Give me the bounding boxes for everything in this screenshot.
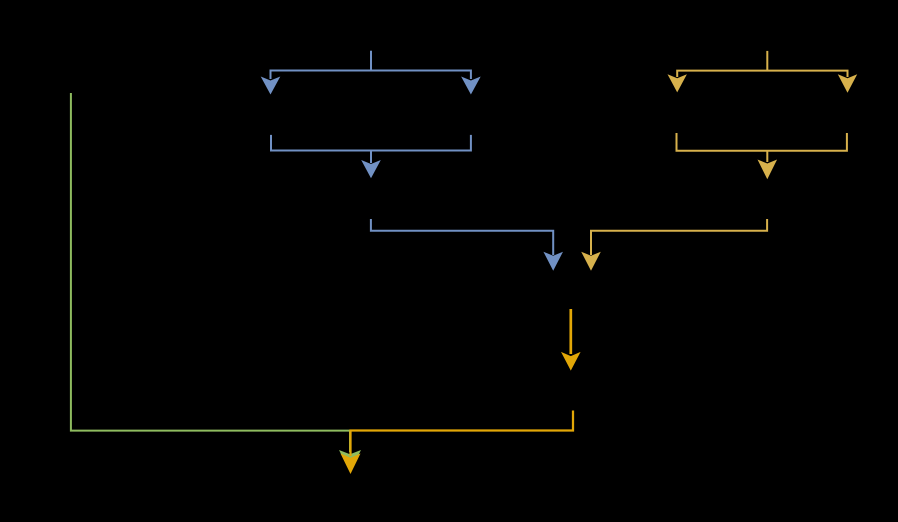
- blue elbow arrowhead: [543, 252, 563, 271]
- blue elbow connector: [371, 219, 553, 255]
- gold elbow connector: [591, 219, 767, 255]
- gold tree center drop: [766, 151, 768, 162]
- gold tree top horizontal with end drops: [677, 71, 847, 77]
- blue tree center arrowhead: [361, 160, 381, 178]
- orange big arrow stem: [569, 309, 572, 354]
- gold tree center arrowhead: [758, 160, 778, 180]
- orange big arrowhead: [561, 352, 581, 371]
- blue tree right arrowhead: [461, 77, 481, 95]
- blue tree center drop: [370, 151, 372, 164]
- gold tree left arrowhead: [668, 74, 687, 92]
- gold tree right arrowhead: [838, 74, 857, 93]
- green connector: [71, 93, 350, 452]
- gold tree bottom bracket: [677, 133, 847, 151]
- green arrowhead: [339, 450, 361, 472]
- blue tree left arrowhead: [261, 77, 281, 95]
- gold elbow arrowhead: [581, 252, 601, 271]
- blue tree top horizontal with end drops: [271, 71, 471, 80]
- blue tree bottom bracket: [271, 135, 471, 151]
- gold tree top stem: [766, 51, 768, 71]
- blue tree top stem: [370, 51, 372, 72]
- orange bottom arrowhead: [341, 454, 361, 475]
- orange bottom connector: [351, 411, 574, 457]
